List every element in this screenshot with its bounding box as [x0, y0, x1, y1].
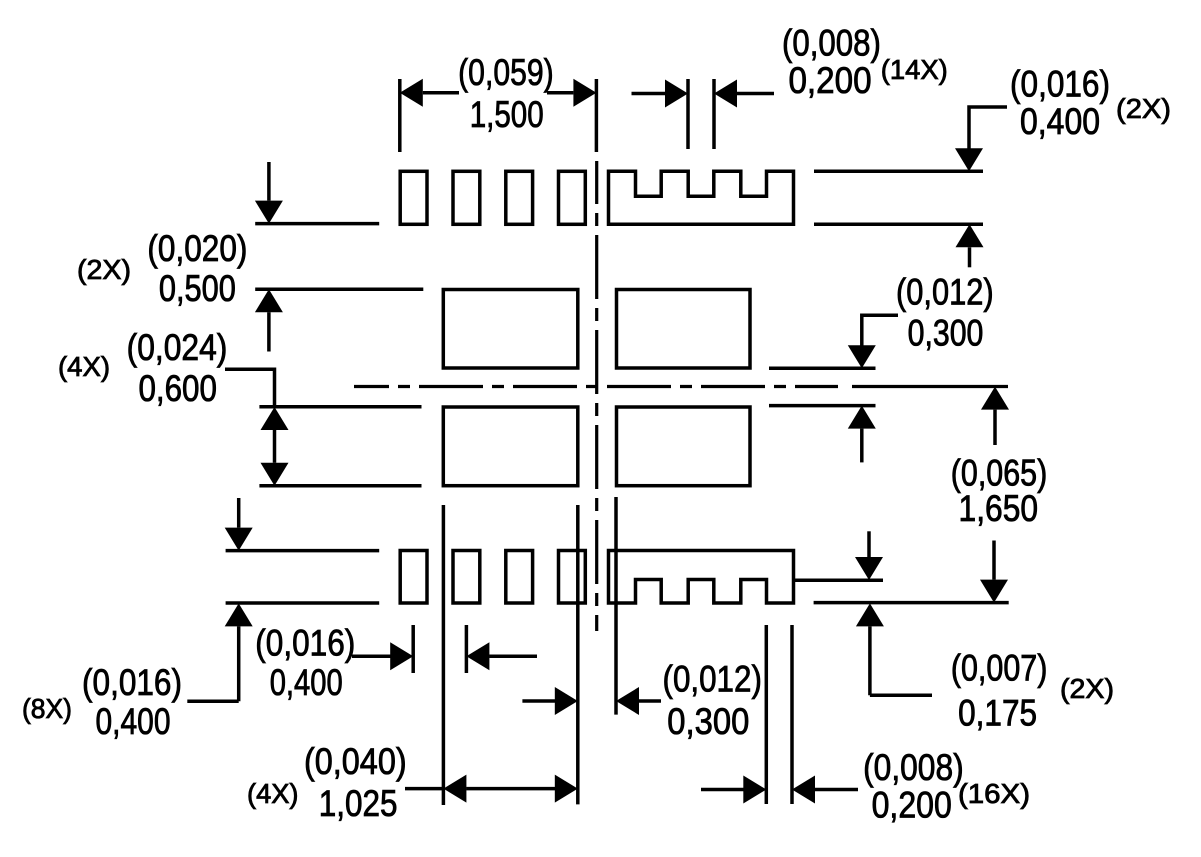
dim 0175 elbow — [870, 694, 932, 698]
svg-text:(0,007): (0,007) — [951, 647, 1048, 688]
dim 1025 line — [466, 787, 555, 791]
vertical centerline — [595, 161, 598, 631]
dim 0500 arrow down stem — [267, 162, 271, 201]
big pad top-right — [617, 290, 751, 369]
bottom pad 1 — [400, 551, 427, 604]
dim 0200t leader left — [632, 92, 666, 96]
dim 0300r arrow down — [848, 345, 876, 368]
top comb pad — [609, 171, 794, 224]
dim 1500 ext left — [398, 79, 402, 152]
line bigrect top left — [255, 287, 423, 291]
bottom pad 2 — [453, 551, 480, 604]
ext comb right edge — [790, 625, 794, 804]
dim 0500 arrow up stem — [267, 312, 271, 351]
top pad 2 — [453, 171, 480, 224]
big pad top-left — [443, 290, 578, 369]
dim 0600 arrow down — [261, 463, 289, 486]
dim 1025 arrow left — [443, 775, 466, 803]
dim 1500 arrow left — [400, 79, 423, 107]
svg-text:(0,012): (0,012) — [896, 272, 994, 313]
dim 1025 arrow right — [555, 775, 578, 803]
dim 0500 arrow up — [255, 289, 283, 312]
line bigrect2 top left — [259, 405, 421, 409]
dim 0400tr stem — [968, 247, 972, 267]
dim 1500 ext right — [595, 79, 599, 152]
bottom comb pad — [609, 551, 794, 604]
svg-text:0,175: 0,175 — [958, 693, 1037, 734]
dim 0300r arrow up — [848, 406, 876, 429]
svg-text:(0,040): (0,040) — [304, 741, 407, 782]
svg-text:(0,008): (0,008) — [782, 23, 881, 64]
ext bigrect left edge — [442, 505, 446, 805]
dim 0400tr elbow — [969, 107, 1007, 150]
svg-text:1,025: 1,025 — [319, 783, 398, 824]
svg-text:(16X): (16X) — [958, 778, 1030, 809]
svg-text:0,200: 0,200 — [872, 784, 952, 825]
dim 0200b arrow right — [743, 776, 766, 804]
svg-text:(4X): (4X) — [58, 351, 110, 382]
big pad bottom-left — [443, 407, 578, 486]
dim 0175 arrow down stem — [867, 531, 871, 557]
dim 0400tr arrow down — [955, 148, 983, 171]
horizontal centerline — [354, 385, 838, 388]
svg-text:(0,020): (0,020) — [147, 228, 247, 269]
dim 0600 arrow up — [261, 407, 289, 430]
dim 0200t ext right — [712, 79, 716, 149]
comb line bottom right — [814, 223, 983, 227]
svg-text:1,500: 1,500 — [470, 94, 544, 135]
svg-text:(0,012): (0,012) — [663, 659, 762, 700]
dim 0200t leader right — [737, 92, 775, 96]
svg-text:0,300: 0,300 — [908, 313, 984, 354]
dim 1650 arrow down — [980, 580, 1008, 603]
dim 0200t arrow left — [714, 80, 737, 108]
line bigrect2 bottom left — [259, 484, 421, 488]
line pads2 bottom left — [226, 601, 380, 605]
dim 0200t arrow right — [665, 80, 688, 108]
dim 1025 leader — [405, 787, 443, 791]
svg-text:(0,016): (0,016) — [255, 623, 355, 664]
dim 0600 stem — [273, 430, 277, 463]
top pad 3 — [506, 171, 533, 224]
dim 0300b arrow left — [616, 687, 639, 715]
svg-text:(0,016): (0,016) — [1010, 64, 1110, 105]
dim 0300b leader right — [639, 699, 661, 703]
comb line top right — [814, 170, 983, 174]
svg-text:0,500: 0,500 — [159, 268, 236, 309]
dim 0400p ext right — [465, 625, 469, 673]
dim 1650 arrow up — [981, 387, 1009, 410]
line notch right — [794, 578, 884, 582]
svg-text:(8X): (8X) — [22, 693, 72, 724]
dim 0400p ext left — [411, 625, 415, 673]
svg-text:(14X): (14X) — [881, 54, 948, 85]
ext bigrect2 left edge — [614, 497, 618, 715]
ext bigrect right edge — [576, 505, 580, 804]
dim 0300r elbow — [862, 315, 898, 346]
dim 0200b leader right — [815, 788, 858, 792]
dim 0400bl stem — [237, 626, 241, 701]
dim 0400p leader left — [352, 654, 391, 658]
dim 1500 line a — [423, 91, 459, 95]
dim 0200b arrow left — [792, 776, 815, 804]
top pad 4 — [559, 171, 586, 224]
dim 0500 arrow down — [255, 201, 283, 224]
svg-text:(2X): (2X) — [1116, 93, 1171, 124]
line gap bottom right — [769, 404, 876, 408]
bottom pad 3 — [506, 551, 533, 604]
svg-text:0,600: 0,600 — [138, 368, 217, 409]
svg-text:(4X): (4X) — [247, 778, 299, 809]
svg-text:0,400: 0,400 — [96, 701, 171, 742]
dim 1650 stem top — [993, 410, 997, 445]
dim 0175 arrow up — [856, 603, 884, 626]
line pads bottom right long — [814, 601, 1009, 605]
svg-text:(0,016): (0,016) — [82, 662, 182, 703]
top pad 1 — [400, 171, 427, 224]
dim 0200b leader left — [701, 788, 744, 792]
svg-text:(2X): (2X) — [1060, 673, 1114, 704]
line pads2 top left — [226, 549, 380, 553]
bottom pad 4 — [559, 551, 586, 604]
big pad bottom-right — [617, 407, 751, 486]
ext comb notch edge — [765, 625, 769, 804]
dim 0600 elbow — [225, 369, 275, 407]
dim 0300b leader left — [522, 699, 555, 703]
dim 1650 stem bottom — [992, 541, 996, 580]
dim 0200t ext left — [686, 79, 690, 149]
svg-text:(0,008): (0,008) — [863, 747, 964, 788]
dim 0300b arrow right — [555, 687, 578, 715]
svg-text:0,300: 0,300 — [667, 701, 749, 742]
svg-text:(0,059): (0,059) — [458, 52, 554, 93]
svg-text:1,650: 1,650 — [959, 488, 1039, 529]
dim 0400p arrow right — [390, 642, 413, 670]
line gap top right — [769, 366, 876, 370]
dim 1500 line b — [547, 91, 573, 95]
dim 0175 arrow down — [855, 557, 883, 580]
svg-text:(2X): (2X) — [77, 254, 131, 285]
horizontal centerline solid right — [852, 385, 1008, 388]
dim 0400bl arrow down — [225, 528, 253, 551]
svg-text:0,400: 0,400 — [1020, 101, 1100, 142]
dim 0400p leader right — [489, 654, 537, 658]
dim 1500 arrow right — [573, 79, 596, 107]
dim 0400bl arrow down stem — [237, 498, 241, 528]
dim 0400bl elbow — [187, 699, 238, 703]
dim 0300r stem — [860, 429, 864, 463]
svg-text:0,400: 0,400 — [270, 662, 343, 703]
dim 0175 stem — [868, 626, 872, 695]
svg-text:0,200: 0,200 — [788, 60, 871, 101]
line pads bottom left — [255, 222, 379, 226]
dim 0400p arrow left — [466, 642, 489, 670]
dim 0400tr arrow up — [956, 224, 984, 247]
svg-text:(0,024): (0,024) — [127, 327, 228, 368]
dim 0400bl arrow up — [225, 603, 253, 626]
